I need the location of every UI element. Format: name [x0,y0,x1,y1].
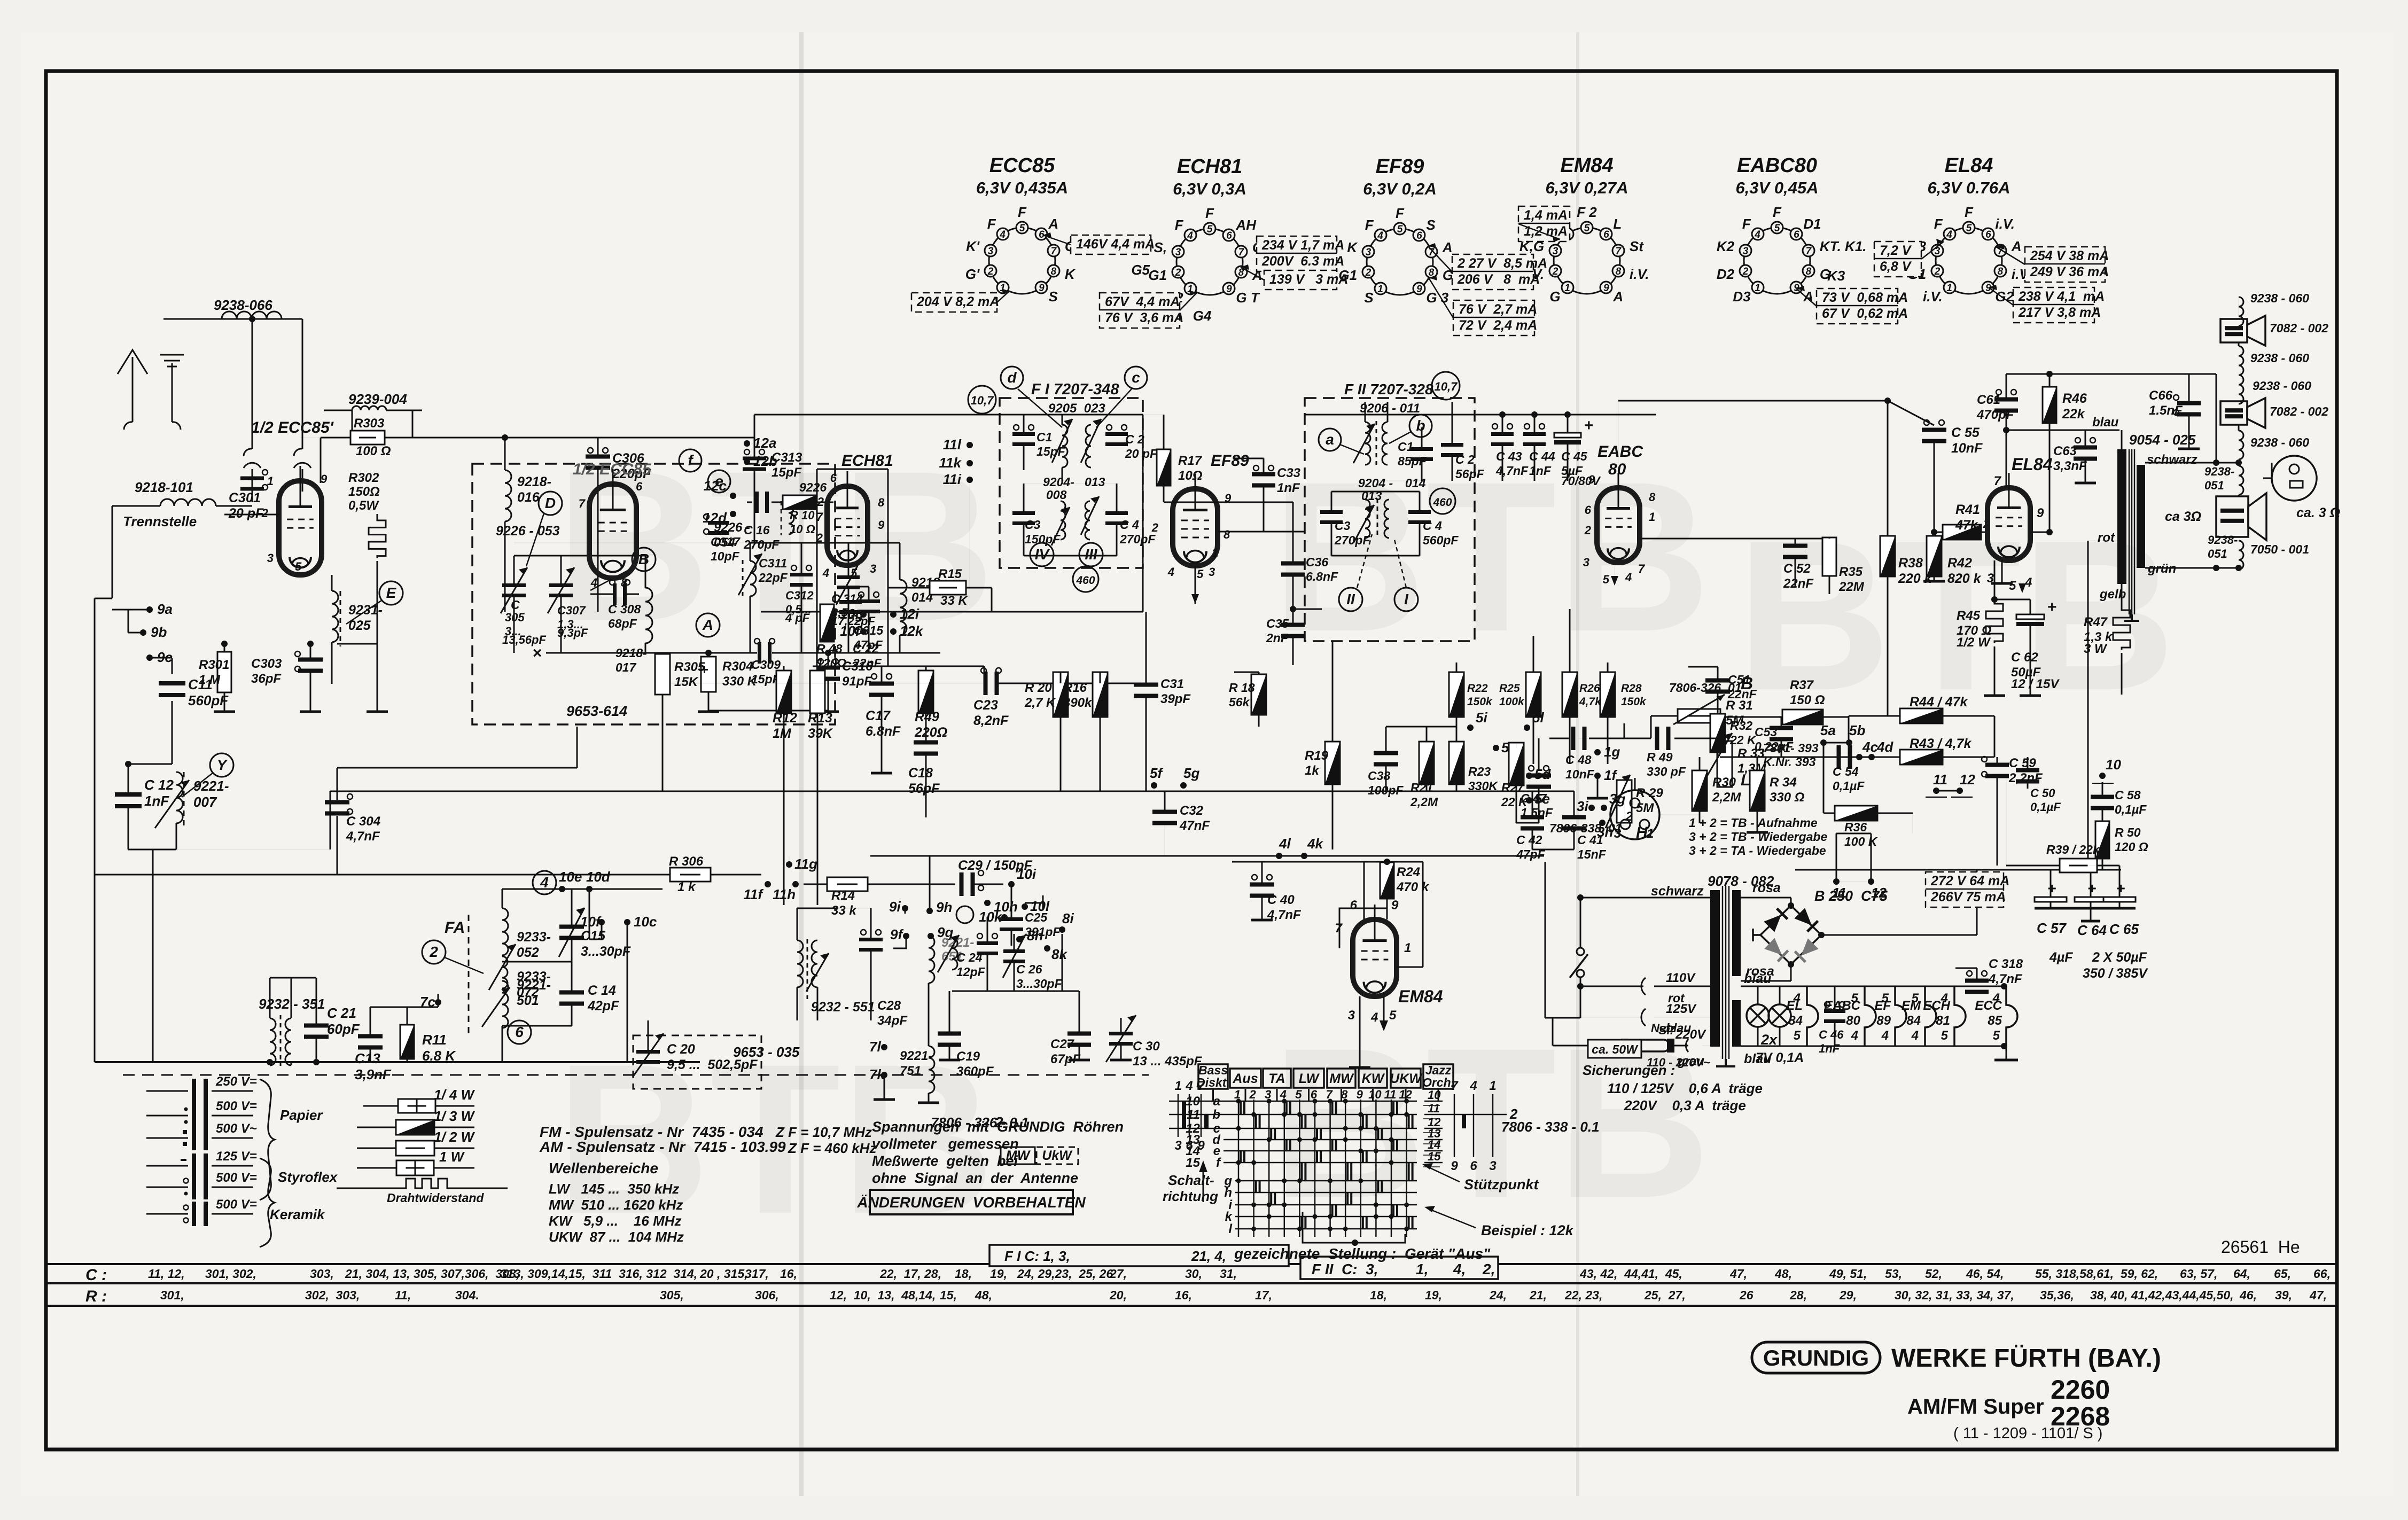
svg-text:Trennstelle: Trennstelle [123,513,197,529]
svg-text:rot: rot [2098,531,2115,545]
svg-text:C 44: C 44 [1529,449,1555,463]
svg-text:10 Ω: 10 Ω [790,523,815,536]
circled II I [1339,588,1362,611]
svg-text:9: 9 [878,518,885,532]
svg-text:9: 9 [1197,1139,1205,1153]
svg-text:330K: 330K [1468,779,1498,793]
svg-text:11: 11 [1384,1088,1397,1101]
svg-text:9: 9 [1357,1088,1363,1101]
potentiometer R29 5M [1617,780,1632,823]
svg-text:28,: 28, [1789,1288,1807,1302]
svg-text:008: 008 [1046,488,1067,502]
EF89 tube [1173,489,1218,566]
svg-text:EF89: EF89 [1211,452,1249,470]
svg-text:5: 5 [1295,1088,1302,1101]
svg-text:2260: 2260 [2051,1375,2110,1405]
svg-text:7c: 7c [420,994,435,1010]
svg-text:22nF: 22nF [852,656,882,670]
svg-text:2,2M: 2,2M [1410,795,1438,809]
svg-text:C 43: C 43 [1496,449,1522,463]
svg-text:ca 3Ω: ca 3Ω [2165,509,2201,524]
svg-text:12a: 12a [753,435,776,451]
svg-text:5: 5 [1603,573,1610,586]
antenna symbol [132,357,134,422]
EF89 anode bus right [1218,531,1305,533]
svg-text:22M: 22M [1838,580,1865,594]
svg-text:12pF: 12pF [956,965,986,979]
svg-text:3: 3 [988,246,994,257]
capacitor C43 4.7nF [1491,432,1514,436]
svg-text:R46: R46 [2062,391,2087,406]
trimmer C307 [549,583,573,587]
svg-text:C3: C3 [1335,519,1351,533]
capacitor C306 220pF [586,455,610,459]
svg-text:C 2: C 2 [1125,432,1144,446]
svg-text:9: 9 [1391,898,1399,913]
svg-text:16,: 16, [1175,1288,1192,1302]
svg-text:46,: 46, [2239,1288,2257,1302]
resistor R32 22k [1710,714,1725,752]
svg-text:R25: R25 [1499,682,1520,695]
svg-text:Styroflex: Styroflex [278,1169,338,1185]
svg-text:9: 9 [2037,506,2044,520]
svg-text:3: 3 [1366,247,1371,258]
svg-text:11, 12,: 11, 12, [148,1267,185,1281]
svg-text:KW: KW [1362,1071,1385,1086]
wire to 7c [370,1007,438,1008]
term 8h 8i 8k [1016,936,1023,942]
svg-text:47,: 47, [2309,1288,2327,1302]
svg-text:017: 017 [615,660,637,674]
svg-text:4: 4 [1185,1079,1193,1093]
resistor R43 14.7k [1900,750,1943,765]
resistor R16 390k [1093,672,1108,717]
resistor R304 330k [701,657,716,692]
svg-text:330 pF: 330 pF [1647,765,1686,778]
svg-text:9653-614: 9653-614 [566,703,627,719]
circled 2 [422,940,446,964]
resistor R42 820k [1927,536,1942,576]
svg-text:4: 4 [1377,230,1383,241]
coil 9233-052 [502,908,508,955]
svg-text:R 29: R 29 [1636,786,1663,800]
legend capacitor Keramik [146,1213,188,1215]
svg-text:R23: R23 [1468,765,1491,778]
svg-text:UKW: UKW [1390,1071,1423,1086]
svg-text:150k: 150k [1621,696,1647,708]
svg-text:C 45: C 45 [1561,449,1588,463]
long bus y1417 [1720,757,1994,758]
svg-text:9238-066: 9238-066 [214,297,272,313]
svg-text:10Ω: 10Ω [1178,469,1203,483]
tuning cap C30 [1109,1032,1133,1035]
svg-text:A: A [1442,239,1453,255]
svg-text:4: 4 [1851,1028,1858,1043]
svg-text:5a: 5a [1820,722,1836,738]
svg-text:ÄNDERUNGEN VORBEHALTEN: ÄNDERUNGEN VORBEHALTEN [856,1194,1086,1211]
svg-text:K2: K2 [1717,238,1735,254]
svg-text:20 pF: 20 pF [228,506,264,521]
resistor R38 220k [1880,536,1895,576]
svg-text:R44 / 47k: R44 / 47k [1910,695,1968,710]
heater ground [2006,1046,2007,1059]
capacitor C51 22nF [1705,679,1730,683]
FIC inset box [989,1245,1289,1266]
svg-text:9: 9 [1039,283,1045,294]
svg-text:4: 4 [1941,991,1948,1005]
svg-text:9218-: 9218- [517,474,551,489]
FI box right drop [1142,415,1144,612]
svg-text:9238-: 9238- [2204,465,2234,478]
svg-text:150 Ω: 150 Ω [1790,693,1825,707]
svg-text:+: + [1584,417,1594,434]
capacitor C25 391pF [1000,917,1023,921]
pentode ECH81 [827,486,868,565]
svg-text:4: 4 [1167,565,1174,579]
svg-text:1: 1 [1377,284,1383,295]
svg-text:31,: 31, [1220,1267,1237,1281]
resistor R35 22M [1822,537,1836,576]
svg-text:249 V 36 mA: 249 V 36 mA [2030,264,2109,279]
terms 5d 5e [1526,773,1532,779]
circled A [696,613,720,637]
svg-text:7: 7 [1238,247,1245,258]
svg-text:7: 7 [816,510,824,524]
svg-text:R19: R19 [1305,749,1329,763]
svg-text:55, 318,58,61, 59, 62,: 55, 318,58,61, 59, 62, [2035,1267,2158,1281]
svg-text:5b: 5b [1849,722,1865,738]
svg-text:13 ... 435pF: 13 ... 435pF [1133,1054,1203,1069]
svg-text:0,1µF: 0,1µF [1833,779,1865,793]
svg-text:4: 4 [1946,229,1952,240]
svg-text:Stützpunkt: Stützpunkt [1464,1176,1539,1192]
svg-text:A: A [1048,216,1058,232]
svg-text:R :: R : [85,1288,107,1305]
resistor R301 1M [217,652,231,692]
svg-text:470pF: 470pF [1976,408,2015,422]
resistor R15 33k [930,581,966,595]
circled IV III 460 [1030,543,1054,566]
svg-text:6.8nF: 6.8nF [1306,570,1338,583]
svg-text:120Ω: 120Ω [816,656,846,670]
choke 9238-060 second [2239,346,2243,375]
svg-text:1nF: 1nF [1277,481,1300,495]
capacitor C66 1.5nF [2177,401,2201,406]
svg-text:C18: C18 [908,766,933,781]
FII C2 56pF [1441,443,1463,447]
svg-text:238 V 4,1 mA: 238 V 4,1 mA [2018,289,2105,304]
svg-text:5: 5 [1993,1028,2000,1043]
svg-text:ohne Signal an der Antenne: ohne Signal an der Antenne [872,1170,1078,1186]
FI C4 270pF [1105,511,1128,515]
svg-text:12: 12 [1960,771,1975,788]
svg-text:146V 4,4 mA: 146V 4,4 mA [1076,237,1155,252]
svg-text:Netz: Netz [1651,1022,1676,1035]
bus above EABC80 [1305,414,1656,416]
svg-text:0,22µF: 0,22µF [1755,739,1794,753]
svg-text:1f: 1f [1604,767,1617,783]
svg-text:C 46: C 46 [1819,1028,1844,1041]
svg-text:013: 013 [1085,475,1105,489]
svg-text:6: 6 [1794,229,1799,240]
svg-text:IV: IV [1035,546,1050,563]
svg-text:30, 32, 31, 33, 34, 37,: 30, 32, 31, 33, 34, 37, [1895,1288,2014,1302]
svg-text:65,: 65, [2274,1267,2291,1281]
circled a b [1319,428,1341,451]
svg-text:8: 8 [1051,266,1057,277]
circled f e [679,449,702,472]
EF89 voltage boxes [1452,254,1533,290]
resistor R27 22k [1509,743,1524,785]
grid connect line [869,652,940,654]
heater buses [1741,986,2004,987]
svg-text:AH: AH [1235,217,1257,233]
svg-text:C 12: C 12 [144,777,174,793]
svg-text:C51: C51 [1728,673,1750,687]
svg-text:751: 751 [900,1064,921,1078]
svg-text:C17: C17 [866,708,891,723]
svg-text:150k: 150k [1467,696,1493,708]
capacitor C40 4.7nF [1250,883,1274,887]
capacitor C303 36pF [298,658,323,662]
svg-text:67 V 0,62 mA: 67 V 0,62 mA [1822,306,1908,321]
svg-text:1 + 2 = TB - Aufnahme: 1 + 2 = TB - Aufnahme [1689,816,1818,830]
svg-text:3: 3 [1489,1159,1497,1173]
svg-text:EL84: EL84 [1945,154,1993,177]
svg-text:014: 014 [1405,476,1426,490]
svg-text:4: 4 [1625,571,1632,584]
capacitor C21 60pF [304,1024,329,1028]
svg-text:22nF: 22nF [1727,687,1757,701]
svg-text:15,: 15, [940,1288,957,1302]
svg-text:9b: 9b [151,624,167,640]
svg-text:2: 2 [1509,1106,1518,1122]
svg-text:4: 4 [1469,1079,1477,1093]
svg-text:K3: K3 [1827,268,1845,284]
tube socket EF89 [1367,229,1433,295]
svg-text:8h: 8h [1027,927,1043,944]
capacitor C35 2nF [1281,623,1305,627]
capacitor C19 360pF [938,1032,961,1036]
resistor R306 1k [670,868,711,882]
svg-text:73 V 0,68 mA: 73 V 0,68 mA [1822,290,1908,305]
svg-text:R47: R47 [2084,615,2108,629]
svg-text:E: E [386,584,397,601]
svg-text:4: 4 [1370,1010,1378,1025]
resistor R22 150k [1449,672,1464,717]
svg-text:10nF: 10nF [1565,767,1595,781]
svg-text:15: 15 [1428,1150,1441,1163]
svg-text:R37: R37 [1790,678,1814,692]
svg-text:C312: C312 [785,589,814,602]
svg-text:6: 6 [1470,1159,1477,1173]
svg-text:8: 8 [1649,490,1656,504]
bottom bus lower left [95,1061,700,1063]
svg-text:St: St [1630,238,1644,254]
svg-text:12 / 15V: 12 / 15V [2011,677,2060,691]
coupling arcs [244,463,261,468]
svg-text:2: 2 [1249,1088,1256,1101]
svg-text:11: 11 [1933,771,1947,788]
circled Y [210,753,233,777]
FII C1 85pF [1410,447,1433,451]
svg-text:R36: R36 [1844,820,1867,834]
left vertical bus [94,598,96,1062]
svg-text:UkW: UkW [1042,1148,1073,1163]
svg-text:1nF: 1nF [1529,464,1552,478]
heater EABC80 [1865,986,1876,1046]
svg-text:C: C [511,598,520,612]
svg-text:19,: 19, [1425,1288,1442,1302]
svg-text:R24: R24 [1397,865,1420,879]
svg-text:R26: R26 [1579,682,1600,695]
svg-text:3 + 2 = TB - Wiedergabe: 3 + 2 = TB - Wiedergabe [1689,830,1827,844]
svg-text:R35: R35 [1839,565,1863,579]
svg-text:7050 - 001: 7050 - 001 [2250,542,2309,556]
resistor R47 1.3k 3W [2113,608,2130,650]
svg-text:2: 2 [1625,809,1633,824]
svg-text:Orch.: Orch. [1422,1075,1454,1089]
svg-text:F: F [1773,204,1782,220]
svg-text:Meßwerte gelten bei: Meßwerte gelten bei [872,1153,1018,1169]
FI primary C1 15pF [1012,432,1035,436]
svg-text:rosa: rosa [1752,880,1781,895]
svg-text:10c: 10c [634,914,657,930]
FI C2 20pF [1105,432,1128,436]
svg-text:AM/FM Super: AM/FM Super [1907,1395,2044,1418]
svg-text:19, 24, 29,23, 25, 26: 19, 24, 29,23, 25, 26 [990,1267,1113,1281]
svg-text:ECH81: ECH81 [841,452,893,470]
svg-text:8: 8 [1224,528,1230,541]
resistor R26 4.7k [1562,672,1577,717]
svg-text:C 57: C 57 [2037,920,2067,936]
svg-text:C31: C31 [1160,677,1184,691]
coil 9231-025 [331,575,333,591]
svg-text:11,: 11, [395,1288,411,1302]
svg-text:220V 0,3 A träge: 220V 0,3 A träge [1624,1097,1746,1113]
IF transformer FI box [1000,398,1143,568]
svg-text:F 2: F 2 [1577,204,1597,220]
svg-text:R303: R303 [354,416,385,431]
svg-text:8: 8 [1806,266,1812,277]
capacitor C17 6.8nF [869,682,894,686]
capacitor C52 22nF [1783,544,1807,548]
svg-text:2: 2 [816,531,823,544]
terms 11 12 bottom [1833,878,1840,885]
svg-text:016: 016 [517,490,540,505]
svg-text:LW: LW [1299,1071,1320,1086]
svg-text:schwarz: schwarz [1651,884,1704,899]
svg-text:III: III [1085,546,1098,563]
svg-text:3: 3 [1583,556,1589,569]
terms 4l 4k [1276,853,1282,859]
svg-text:B: B [638,551,649,567]
svg-text:6.8nF: 6.8nF [866,724,901,739]
svg-text:42pF: 42pF [587,999,619,1014]
svg-text:FM - Spulensatz - Nr 7435 - 0: FM - Spulensatz - Nr 7435 - 034 [540,1124,763,1140]
svg-text:11k: 11k [939,455,962,471]
svg-text:6: 6 [1603,229,1609,240]
svg-text:C 48: C 48 [1565,753,1592,767]
svg-text:9221-: 9221- [517,978,551,993]
svg-text:4: 4 [1793,991,1801,1005]
circled D [539,492,562,515]
triode V1b ECC85 [589,484,636,578]
FI sec coil [1086,425,1091,467]
svg-text:500 V~: 500 V~ [216,1121,257,1136]
circled d c pointers [1001,367,1023,389]
svg-text:2: 2 [1552,266,1558,277]
svg-text:F: F [1934,216,1943,232]
svg-text:R 10: R 10 [790,509,815,522]
272V box [1926,872,2004,907]
svg-text:2: 2 [994,1114,1003,1131]
svg-text:4,7nF: 4,7nF [346,829,380,844]
resistor R24 470k [1380,862,1394,899]
svg-text:4: 4 [1187,230,1193,241]
svg-text:K: K [1347,239,1358,255]
ECH81 shield box [816,469,818,666]
svg-text:3,3nF: 3,3nF [2053,459,2087,473]
svg-text:d: d [1007,369,1017,386]
svg-text:4µF: 4µF [2049,950,2073,965]
svg-text:85: 85 [1988,1014,2002,1028]
signal bus to EL84 grid [1618,401,1619,473]
svg-text:35,36,: 35,36, [2040,1288,2074,1302]
choke 9238-060 third [2239,375,2243,404]
svg-text:2: 2 [1934,266,1941,277]
svg-text:3...30pF: 3...30pF [581,944,631,959]
wires detector pots [1579,738,1624,739]
svg-text:10f: 10f [580,914,602,930]
svg-text:×: × [532,644,542,662]
svg-text:56pF: 56pF [908,781,940,796]
svg-text:5: 5 [1397,224,1403,235]
fuse [1553,1045,1622,1047]
svg-text:1: 1 [1212,546,1218,559]
capacitor C50 0.1uF [2016,768,2039,773]
heater EM84 [1925,986,1936,1046]
svg-text:KT. K1.: KT. K1. [1820,238,1867,254]
svg-text:9205 023: 9205 023 [1048,401,1105,416]
capacitor C38 100pF [1374,751,1398,755]
svg-text:0,1µF: 0,1µF [2030,800,2061,814]
pot R31 5M [1678,709,1720,723]
svg-text:204 V 8,2 mA: 204 V 8,2 mA [916,294,999,309]
svg-text:C61: C61 [1977,393,2000,407]
svg-text:270pF: 270pF [1334,533,1370,547]
svg-text:6: 6 [1985,229,1991,240]
svg-text:F: F [1742,216,1751,232]
svg-text:8i: 8i [1062,910,1074,926]
svg-text:21, 304, 13, 305, 307,306, 30: 21, 304, 13, 305, 307,306, 308, [345,1267,519,1281]
svg-text:C 47: C 47 [1521,791,1547,805]
svg-text:MW 510 ... 1620 kHz: MW 510 ... 1620 kHz [549,1197,683,1213]
svg-text:220Ω: 220Ω [914,725,947,740]
svg-text:R39 / 22k: R39 / 22k [2046,843,2100,856]
svg-text:9: 9 [1226,284,1232,295]
svg-text:10i: 10i [1017,866,1037,882]
svg-text:R30: R30 [1712,775,1736,790]
svg-text:C 20: C 20 [667,1042,695,1057]
svg-text:5: 5 [1584,223,1590,234]
svg-text:6,3V 0.76A: 6,3V 0.76A [1927,178,2010,197]
svg-text:C 4: C 4 [1120,518,1139,532]
speaker 2 7082-002 [2220,401,2247,425]
legend Drahtwiderstand [337,1188,400,1189]
svg-text:C 55: C 55 [1951,425,1980,440]
capacitor C47 1.5nF [1526,774,1551,778]
